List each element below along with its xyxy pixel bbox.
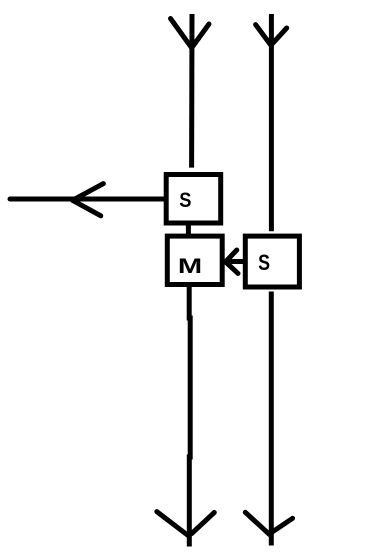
wire W7: vertical line from box S2 bottom to bottom arrow: [269, 292, 274, 546]
wire W4: short connector between box S1 and box M1: [186, 224, 191, 235]
wire W3: horizontal line from box S1 to left edge: [10, 197, 164, 202]
arrowhead A4: left-pointing arrow barbs on wire W5: [226, 250, 239, 273]
label S1: letter S: [179, 188, 191, 212]
box S1: top selector box: [166, 175, 221, 224]
svg-text:S: S: [179, 188, 191, 212]
arrowhead A3: left-pointing arrow barbs on wire W3: [73, 184, 104, 216]
wire W5: horizontal line from box S2 to box M1: [225, 259, 248, 264]
wire W6: vertical line from box M1 bottom to bottom arrow: [189, 285, 190, 547]
arrowhead A5: downward arrow barbs on wire W6: [157, 512, 215, 536]
wire W1: top-left vertical shaft into box S1: [189, 14, 194, 168]
label S2: letter S: [258, 250, 270, 275]
arrowhead A6: downward arrow barbs on wire W7: [245, 512, 292, 534]
arrowhead A2: downward arrow barbs on wire W2: [256, 25, 287, 46]
box S2: right selector box: [245, 236, 299, 287]
box M1: middle box: [167, 236, 222, 284]
svg-text:S: S: [258, 250, 270, 275]
wire W2: top-right vertical shaft into box S2: [269, 14, 274, 231]
label M1: letter M: [178, 255, 202, 278]
arrowhead A1: downward arrow barbs on wire W1: [171, 19, 210, 49]
svg-text:M: M: [178, 255, 202, 278]
